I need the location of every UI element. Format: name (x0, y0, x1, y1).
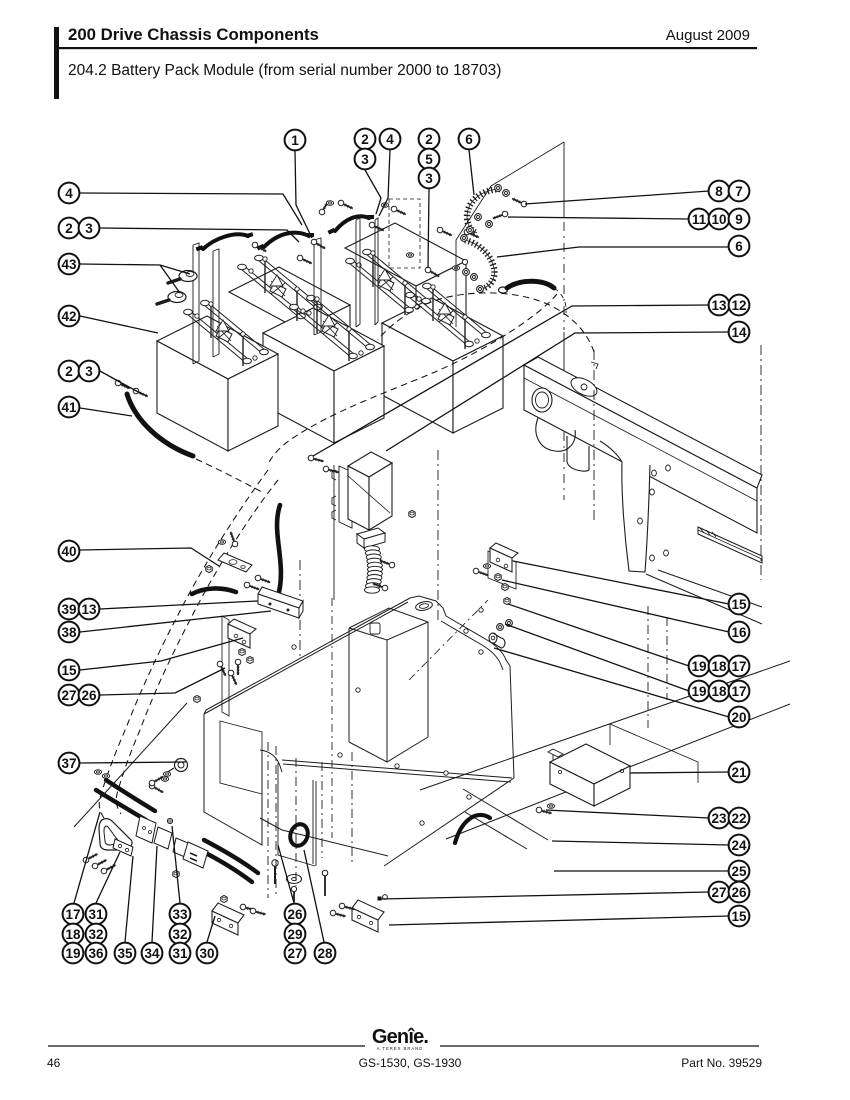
callout 40 at 69,551 (59, 541, 80, 562)
callout 42 at 69,316 (59, 306, 80, 327)
leader 11-10-9 (508, 217, 689, 219)
battery hold-down front-right (406, 283, 491, 349)
callout 11 at 699,219 (689, 209, 710, 230)
screw below mid panel (324, 876, 326, 896)
rail leg hole 1 (652, 470, 657, 476)
svg-text:21: 21 (731, 765, 747, 780)
svg-text:3: 3 (361, 152, 369, 167)
leader 20 (494, 648, 729, 717)
callout 3 at 89,228 (79, 218, 100, 239)
cable clamp block 2 (154, 827, 172, 849)
svg-text:4: 4 (386, 132, 394, 147)
battery spacer panel 5 (375, 218, 378, 325)
clamp screws 40 (228, 531, 239, 548)
callout 23 at 719,818 (709, 808, 730, 829)
rail end hole (532, 388, 552, 412)
leader 15 r2 (389, 916, 729, 925)
svg-text:26: 26 (287, 907, 303, 922)
leader 37 (80, 762, 186, 763)
cam latch 20 (489, 633, 497, 643)
washer top-2 (381, 203, 388, 208)
leader 13-12 (313, 305, 709, 456)
washer 18 r1 (506, 620, 513, 627)
cable stub at 40 (192, 588, 236, 594)
callout 29 at 295,934 (285, 924, 306, 945)
screws 27-26 left (216, 660, 228, 677)
callout 43 at 69,264 (59, 254, 80, 275)
leader 27-26 left (100, 668, 225, 695)
battery front-right (382, 298, 503, 361)
cable 12 (499, 287, 508, 293)
svg-text:34: 34 (144, 946, 160, 961)
svg-text:18: 18 (711, 684, 727, 699)
callout 26 at 295,914 (285, 904, 306, 925)
leader 19-18-17 r1 (508, 604, 689, 666)
deck dashed pair outer (99, 470, 268, 818)
block 39 screws (243, 581, 260, 592)
svg-text:15: 15 (61, 663, 77, 678)
bracket 15L hardware (239, 648, 245, 655)
svg-text:2: 2 (361, 132, 369, 147)
svg-text:27: 27 (61, 688, 76, 703)
handle screws (82, 851, 99, 863)
rail leg hole 2 (666, 465, 671, 471)
washer top-4 (452, 266, 459, 271)
leader 17col (74, 812, 100, 903)
leader 23-22 (546, 810, 709, 818)
rail leg hole 3 (650, 489, 655, 495)
leader 26col (278, 845, 294, 903)
screw top-3 (310, 238, 326, 251)
dash-dot vertical 6 (666, 617, 668, 700)
washer 29 (287, 875, 302, 884)
callout 17 at 73,914 (63, 904, 84, 925)
svg-text:19: 19 (691, 659, 706, 674)
callout 20 at 739,717 (729, 707, 750, 728)
callout 18 at 73,934 (63, 924, 84, 945)
screw top-5 (318, 199, 331, 215)
tray bolt dot 5 (467, 795, 471, 799)
strap 6 lower end rings (461, 235, 468, 242)
svg-text:7: 7 (735, 184, 743, 199)
washer 17 r1 (504, 597, 510, 604)
tray left wall (204, 714, 262, 845)
svg-text:20: 20 (731, 710, 746, 725)
screw top-6 (337, 199, 354, 211)
panel behind straps (456, 142, 564, 327)
panel behind bracket 15L (222, 616, 229, 716)
battery hold-down rear-left (238, 255, 323, 321)
callout 17 at 739,691 (729, 681, 750, 702)
charger box seam (347, 475, 390, 513)
cable clamp block 4 (183, 842, 208, 868)
svg-text:38: 38 (61, 625, 77, 640)
strap lower washers (463, 269, 470, 276)
dash-dot vertical 1 (267, 742, 269, 898)
callout 19 at 73,953 (63, 943, 84, 964)
svg-text:31: 31 (172, 946, 188, 961)
callout 13 at 719,305 (709, 295, 730, 316)
rail leg hole 5 (650, 555, 655, 561)
tray step (260, 750, 388, 856)
leader 16 (502, 580, 729, 632)
leader 6 right (497, 247, 729, 257)
chassis deck edge left (74, 703, 187, 827)
chassis deck line 1 (420, 661, 790, 790)
callout 15 at 739,604 (729, 594, 750, 615)
dash-dot vertical 4 (321, 762, 323, 858)
svg-text:1: 1 (291, 133, 299, 148)
tray dash vertical (331, 598, 333, 838)
svg-text:27: 27 (711, 885, 726, 900)
washer stack topleft (94, 770, 101, 775)
cables through clamps (96, 780, 155, 820)
callout 2 at 365,139 (355, 129, 376, 150)
box 21 (550, 744, 630, 784)
svg-text:2: 2 (65, 364, 73, 379)
callout 39 at 69,609 (59, 599, 80, 620)
svg-text:204.2 Battery Pack Module (fro: 204.2 Battery Pack Module (from serial n… (68, 62, 501, 79)
callout 2 at 429,139 (419, 129, 440, 150)
battery cable J2 (264, 233, 309, 247)
tray bolt dot 6 (479, 650, 483, 654)
callout 6 at 469,139 (459, 129, 480, 150)
screws 2-3 lower (114, 379, 131, 391)
leader 35 (125, 856, 133, 942)
svg-text:19: 19 (65, 946, 80, 961)
screw top-1 (251, 241, 267, 254)
screw top-2 (296, 254, 313, 266)
coil screw B (372, 581, 389, 592)
dash-dot vertical 5 (647, 606, 649, 728)
callout 14 at 739,332 (729, 322, 750, 343)
deck dashed pair inner (116, 480, 278, 814)
leader 2-3 left-a (100, 228, 299, 242)
svg-text:40: 40 (61, 544, 76, 559)
dash-dot line charger (299, 560, 301, 660)
cable 41 dashed continuation (196, 459, 262, 492)
latch 37 (175, 759, 188, 772)
callout 3 at 365,159 (355, 149, 376, 170)
battery spacer panel 4 (356, 218, 360, 327)
callout 32 at 180,934 (170, 924, 191, 945)
svg-text:2: 2 (65, 221, 73, 236)
svg-text:A TEREX BRAND: A TEREX BRAND (377, 1046, 423, 1051)
header rule (57, 47, 757, 49)
battery hold-down front-middle (290, 295, 375, 361)
battery spacer panel 2 (213, 249, 219, 357)
svg-text:26: 26 (731, 885, 747, 900)
braided strap 6 lower (465, 240, 494, 289)
tray rim oval (415, 600, 433, 612)
strap 6 upper end rings (495, 185, 502, 192)
screw 23-22 (536, 807, 553, 816)
cable clamp block 1 (136, 816, 156, 843)
svg-text:46: 46 (47, 1056, 61, 1070)
chassis lines below leg (646, 570, 762, 624)
svg-text:12: 12 (731, 298, 746, 313)
latch 37 screws (148, 782, 164, 795)
tray bolt dot 3 (395, 764, 399, 768)
rail support leg (600, 441, 650, 572)
clamp plate 40 (218, 553, 252, 572)
svg-text:6: 6 (735, 239, 743, 254)
callout 9 at 739,219 (729, 209, 750, 230)
callout 26 at 739,892 (729, 882, 750, 903)
coil connector (357, 528, 385, 539)
braided strap 6 upper (467, 189, 500, 233)
callout 25 at 739,871 (729, 861, 750, 882)
stud r1 (479, 608, 483, 612)
svg-text:3: 3 (425, 171, 433, 186)
svg-text:18: 18 (711, 659, 727, 674)
leader 2-5-3 (428, 189, 429, 268)
tray bolt dot 9 (420, 821, 424, 825)
bracket 15 bottom (352, 900, 384, 932)
cable 12 dashed tail (554, 288, 566, 313)
charger nut (409, 510, 415, 517)
rail hook (536, 418, 575, 451)
bracket 30 screws (240, 904, 257, 913)
tray bottom right edge (384, 778, 514, 866)
svg-text:3: 3 (85, 221, 93, 236)
rail dash-dot line 1 (593, 350, 595, 522)
tray bolt dot 2 (338, 753, 342, 757)
leader 15 r1 (513, 561, 729, 604)
svg-text:19: 19 (691, 684, 706, 699)
tray right band (441, 616, 510, 670)
deck dashed curve top (378, 293, 594, 352)
nut left of tray (194, 695, 200, 702)
dash-dot vertical 3 (295, 758, 297, 886)
svg-text:33: 33 (172, 907, 188, 922)
clip above box 21 (548, 749, 563, 762)
svg-text:9: 9 (735, 212, 743, 227)
leader 19-18-17 r2 (505, 624, 689, 691)
callout 4 at 69,193 (59, 183, 80, 204)
svg-text:8: 8 (715, 184, 723, 199)
battery hold-down front-left (184, 300, 269, 366)
leader 4 left (80, 193, 302, 225)
handle 35 (99, 819, 132, 850)
leader 28 (304, 850, 324, 942)
svg-text:5: 5 (425, 152, 433, 167)
cable clamp block 3 (173, 838, 188, 857)
header vertical bar (54, 27, 59, 99)
screw top-8 (424, 266, 440, 279)
battery cable 41 (127, 394, 193, 456)
callout 27 at 69,695 (59, 685, 80, 706)
battery hold-down rear-right (346, 249, 431, 315)
bracket 15 right (490, 543, 518, 572)
svg-text:17: 17 (731, 684, 746, 699)
bracket 15 left (228, 619, 256, 648)
battery rear-left (229, 267, 350, 330)
battery spacer panel 3 (314, 238, 321, 335)
svg-text:32: 32 (172, 927, 187, 942)
leader 2-3 left-b (100, 371, 142, 394)
svg-text:17: 17 (65, 907, 80, 922)
charger box (348, 452, 392, 477)
leader 15 left (80, 638, 243, 670)
callout 38 at 69,632 (59, 622, 80, 643)
leader 38 (80, 611, 271, 632)
callout 18 at 719,691 (709, 681, 730, 702)
callout 12 at 739,305 (729, 295, 750, 316)
charger mount plate (332, 466, 352, 528)
cable 24 (455, 815, 490, 843)
screw top-4 (368, 221, 385, 233)
washer top-3 (406, 253, 413, 258)
callout 35 at 125,953 (115, 943, 136, 964)
callout 31 at 180,953 (170, 943, 191, 964)
panel edge by charger (333, 465, 335, 600)
tray bolt dot 4 (444, 771, 448, 775)
svg-text:Genîe.: Genîe. (372, 1026, 429, 1048)
svg-text:39: 39 (61, 602, 76, 617)
leader 2-3 top (365, 170, 381, 214)
deck dashed curve main (268, 294, 557, 464)
tray back rim (204, 598, 410, 714)
svg-text:28: 28 (317, 946, 333, 961)
terminal boot 43b (168, 292, 186, 303)
callout 27 at 719,892 (709, 882, 730, 903)
callout 17 at 739,666 (729, 656, 750, 677)
callout 28 at 325,953 (315, 943, 336, 964)
tray bolt dot 1 (292, 645, 296, 649)
callout 24 at 739,845 (729, 835, 750, 856)
svg-text:14: 14 (731, 325, 747, 340)
svg-text:42: 42 (61, 309, 76, 324)
tray floor front line (282, 760, 512, 782)
rail top pad (568, 374, 600, 400)
callout 32 at 96,934 (86, 924, 107, 945)
svg-text:17: 17 (731, 659, 746, 674)
callout 2 at 69,228 (59, 218, 80, 239)
svg-text:Part No. 39529: Part No. 39529 (681, 1056, 762, 1070)
strap hardware 11-10-9 (475, 214, 482, 221)
coil screw A (379, 558, 396, 569)
callout 22 at 739,818 (729, 808, 750, 829)
rail cylinder (567, 436, 589, 470)
panel behind bracket 15R (488, 551, 516, 589)
callout 27 at 295,953 (285, 943, 306, 964)
clamp screw top (167, 818, 172, 823)
callout 5 at 429,159 (419, 149, 440, 170)
callout 6 at 739,246 (729, 236, 750, 257)
battery spacer panel 1 (193, 243, 199, 364)
svg-text:15: 15 (731, 597, 747, 612)
svg-text:18: 18 (65, 927, 81, 942)
charger screw A (308, 455, 325, 464)
panel behind box 21 (610, 724, 698, 783)
svg-text:32: 32 (88, 927, 103, 942)
svg-text:37: 37 (61, 756, 76, 771)
leader 6 top (469, 150, 474, 195)
leader 42 (80, 316, 158, 333)
callout 30 at 207,953 (197, 943, 218, 964)
rail leg hole 6 (664, 550, 669, 556)
svg-text:3: 3 (85, 364, 93, 379)
rail dash-dot line 2 (760, 345, 762, 580)
svg-text:16: 16 (731, 625, 747, 640)
screw 26 vertical (274, 866, 276, 884)
clamp nut bottom (173, 870, 179, 877)
tray left wall inset (220, 721, 262, 794)
screw 27 bottom (293, 891, 295, 902)
dash-dot line charger2 (437, 450, 439, 620)
svg-text:4: 4 (65, 186, 73, 201)
svg-text:26: 26 (81, 688, 97, 703)
tray mid wall lines (278, 763, 316, 866)
svg-text:GS-1530, GS-1930: GS-1530, GS-1930 (359, 1056, 462, 1070)
leader 30 (207, 916, 215, 942)
svg-text:25: 25 (731, 864, 747, 879)
battery front-middle (263, 308, 384, 371)
callout 33 at 180,914 (170, 904, 191, 925)
callout 18 at 719,666 (709, 656, 730, 677)
leader 34 (152, 846, 157, 942)
battery rear-right (345, 223, 466, 286)
strap hardware 8-7 (503, 190, 510, 197)
callout 19 at 699,691 (689, 681, 710, 702)
footer rule left (48, 1045, 365, 1047)
leader 43a (80, 264, 190, 274)
callout 3 at 429,178 (419, 168, 440, 189)
svg-text:43: 43 (61, 257, 77, 272)
o-ring 28 (288, 822, 311, 848)
dash-dot vertical 2 (275, 746, 277, 898)
battery cable J3 (335, 216, 369, 231)
footer rule right (440, 1045, 759, 1047)
svg-text:13: 13 (711, 298, 727, 313)
svg-text:August 2009: August 2009 (666, 27, 750, 44)
battery cable J1 (203, 234, 248, 249)
screw top-10 (463, 228, 480, 240)
callout 19 at 699,666 (689, 656, 710, 677)
callout 2 at 69,371 (59, 361, 80, 382)
tray rim tab (410, 596, 446, 616)
leader 25 (554, 870, 729, 872)
callout 15 at 69,670 (59, 660, 80, 681)
svg-text:24: 24 (731, 838, 747, 853)
well tab (370, 623, 380, 634)
callout 4 at 390,139 (380, 129, 401, 150)
battery front-left (157, 316, 278, 379)
tray bolt dot 8 (356, 688, 360, 692)
svg-text:11: 11 (692, 212, 707, 227)
leader 33col (172, 826, 180, 903)
tray right wall (510, 666, 514, 778)
callout 34 at 152,953 (142, 943, 163, 964)
chassis deck line 2 (446, 704, 790, 839)
svg-text:13: 13 (81, 602, 97, 617)
deck falling line 2 (465, 812, 527, 849)
leader 21 (630, 772, 729, 773)
svg-text:27: 27 (287, 946, 302, 961)
charger screw B (323, 466, 340, 475)
svg-text:2: 2 (425, 132, 433, 147)
dash-dot under tray mid (351, 752, 353, 866)
leader 31col (96, 852, 120, 903)
leader 27-26 right (380, 892, 709, 899)
leader 14 (386, 332, 729, 451)
cable drop (277, 505, 281, 592)
callout 10 at 719,219 (709, 209, 730, 230)
svg-text:41: 41 (61, 400, 77, 415)
leader 40 (80, 548, 219, 566)
callout 36 at 96,953 (86, 943, 107, 964)
